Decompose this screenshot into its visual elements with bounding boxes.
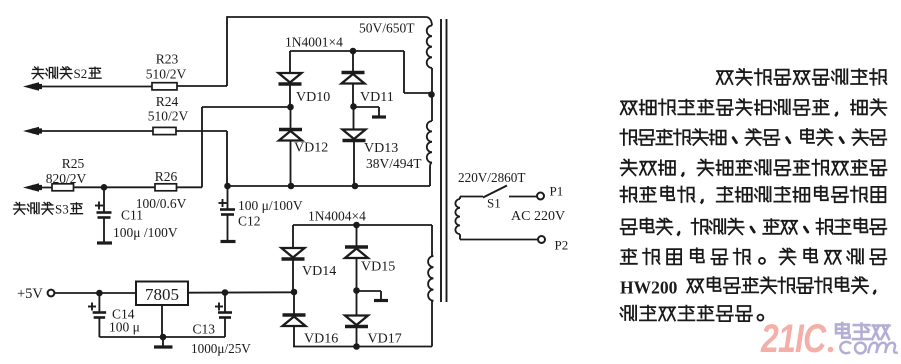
regulator U 7805 [136, 282, 188, 306]
svg-text:50V/650T: 50V/650T [359, 21, 415, 36]
node VD15-VD17 [353, 287, 360, 294]
svg-text:HW200: HW200 [620, 277, 678, 297]
wire center tap [403, 51, 405, 93]
svg-text:100 μ: 100 μ [109, 320, 140, 335]
logo 电子网 [836, 323, 850, 338]
ground 7805 [162, 337, 164, 346]
svg-text:1000μ/25V: 1000μ/25V [191, 341, 251, 356]
wire R25 to R26 [74, 186, 156, 188]
terminal +5V [48, 290, 55, 297]
transformer secondary 38V winding [431, 95, 433, 121]
svg-text:C11: C11 [121, 208, 143, 223]
wire 7805 ground pin [161, 305, 163, 337]
terminal P2 [538, 236, 545, 243]
svg-text:100μ /100V: 100μ /100V [113, 225, 178, 240]
wire R24 to C12 node [176, 130, 227, 132]
svg-text:510/2V: 510/2V [146, 67, 187, 82]
wire R23 to corner [177, 85, 227, 87]
svg-text:7805: 7805 [145, 285, 179, 304]
node center tap [428, 91, 435, 98]
node VD10-VD12 [287, 104, 294, 111]
svg-text:820/2V: 820/2V [46, 171, 87, 186]
svg-text:VD10: VD10 [296, 90, 330, 105]
capacitor C13 [224, 293, 226, 313]
resistor R25 [52, 184, 74, 191]
terminal P1 [537, 193, 544, 200]
node C13 [222, 289, 229, 296]
wire +5V to 7805 [54, 292, 136, 294]
svg-text:VD11: VD11 [360, 90, 394, 105]
svg-text:S1: S1 [487, 196, 501, 211]
diode VD15 [356, 225, 358, 247]
diode VD16 [293, 292, 295, 315]
svg-text:1N4001×4: 1N4001×4 [285, 35, 343, 50]
node arrow to switch S2 [23, 82, 39, 90]
svg-text:R23: R23 [156, 52, 179, 67]
svg-text:S2: S2 [74, 66, 88, 81]
svg-text:R26: R26 [155, 169, 178, 184]
wire R26 up to VD10-VD12 node [177, 186, 203, 188]
capacitor C12 [224, 183, 231, 190]
svg-text:VD13: VD13 [364, 141, 398, 156]
svg-text:VD15: VD15 [361, 260, 395, 275]
node VD13 bottom [352, 183, 359, 190]
label 去开关S3端 [14, 203, 26, 215]
svg-text:P1: P1 [550, 184, 564, 199]
wire bridge2 right + secondary winding 3 [431, 225, 433, 256]
transformer core [440, 19, 442, 302]
resistor R26 [155, 184, 177, 191]
node C14 [96, 290, 103, 297]
diode VD10 [289, 51, 291, 73]
svg-text:VD17: VD17 [368, 332, 402, 347]
node VD11-VD13 [350, 103, 357, 110]
svg-text:21IC: 21IC [760, 316, 827, 361]
diode VD14 [292, 225, 294, 248]
diode VD17 [356, 291, 358, 316]
logo .com [828, 347, 834, 353]
wire bridge2 bottom rail [293, 346, 432, 348]
resistor R24 [153, 127, 176, 134]
node bridge2 top [353, 222, 360, 229]
wire 7805 output [188, 291, 294, 293]
svg-text:VD16: VD16 [304, 332, 338, 347]
svg-text:C12: C12 [238, 214, 261, 229]
node arrow row2 [23, 127, 39, 135]
wire row2 [30, 130, 153, 132]
capacitor C14 [98, 293, 100, 313]
svg-text:+5V: +5V [17, 286, 43, 302]
ground bridge2 [357, 290, 382, 292]
resistor R23 [152, 83, 177, 90]
svg-text:P2: P2 [555, 238, 569, 253]
svg-text:S3: S3 [55, 202, 69, 217]
wire bridge2 top rail [293, 224, 432, 226]
node bridge2 bottom [353, 343, 360, 350]
transformer primary 220V winding [459, 197, 461, 200]
label 去开关S2端 [32, 67, 44, 79]
node VD14-VD16 [291, 289, 298, 296]
svg-text:38V/494T: 38V/494T [366, 156, 422, 171]
logo 21IC [760, 316, 827, 361]
svg-text:1N4004×4: 1N4004×4 [308, 209, 366, 224]
svg-text:VD14: VD14 [302, 264, 336, 279]
paragraph text [717, 71, 733, 84]
diode VD11 [352, 51, 354, 73]
wire bridge1 top rail [290, 50, 404, 52]
svg-text:R25: R25 [62, 156, 85, 171]
transformer secondary 50V winding [427, 26, 432, 68]
wire bottom rail C14-C13 [99, 336, 225, 338]
ground bridge1 [354, 106, 380, 108]
node arrow row3 [23, 183, 39, 191]
node ground rail [160, 334, 167, 341]
svg-text:510/2V: 510/2V [148, 109, 189, 124]
wire row3 [30, 187, 52, 189]
svg-text:C13: C13 [193, 322, 216, 337]
svg-text:VD12: VD12 [294, 141, 328, 156]
diode VD12 [290, 107, 292, 130]
node VD12 bottom [288, 183, 295, 190]
node bridge1 top [350, 48, 357, 55]
capacitor C11 [103, 187, 105, 212]
switch S1 [460, 196, 483, 198]
diode VD13 [353, 107, 355, 130]
wire bridge1 bottom rail [228, 185, 431, 187]
wire top rail from R23 to transformer top [227, 16, 426, 18]
svg-text:100 μ/100V: 100 μ/100V [238, 198, 303, 213]
node C11 junction [101, 184, 108, 191]
svg-text:R24: R24 [156, 94, 179, 109]
svg-text:AC 220V: AC 220V [511, 209, 565, 224]
wire to P2 [460, 239, 538, 241]
svg-text:220V/2860T: 220V/2860T [458, 170, 525, 185]
transformer secondary winding (5V supply) [428, 256, 433, 301]
svg-text:100/0.6V: 100/0.6V [136, 196, 187, 211]
wire row1 [30, 86, 152, 88]
